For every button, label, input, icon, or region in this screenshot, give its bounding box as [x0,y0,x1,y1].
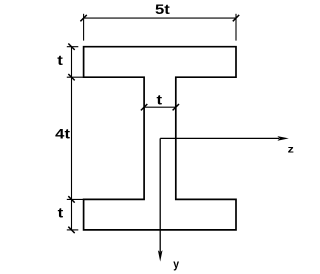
extension line right of 5t dimension [235,14,237,41]
tick at web left [141,104,147,110]
svg-text:z: z [288,144,294,156]
z axis line [160,137,279,139]
extension line at flange top [67,46,79,48]
svg-text:5t: 5t [155,1,170,17]
y axis arrowhead [158,250,163,261]
tick left end of 5t [80,15,86,21]
tick at y=229.9 [68,227,74,233]
y axis line [159,138,161,252]
extension line at flange bottom [67,76,140,78]
svg-text:y: y [173,257,179,271]
svg-text:t: t [157,91,163,107]
I-beam section outline [84,47,236,230]
dimension line t (web width) [144,106,176,108]
svg-text:4t: 4t [55,125,70,141]
tick at y=46.7 [68,44,74,50]
extension line at lower flange top [67,198,140,200]
z axis arrowhead [277,136,288,141]
extension line at lower flange bottom [67,229,79,231]
tick at y=77.2 [68,74,74,80]
dimension line 5t [84,17,236,19]
svg-text:t: t [57,52,63,68]
svg-text:t: t [58,205,64,221]
tick at y=199.4 [68,196,74,202]
left dimension line (t / 4t / t) [71,47,73,230]
extension line left of 5t dimension [83,14,85,41]
tick right end of 5t [233,15,239,21]
tick at web right [173,104,179,110]
